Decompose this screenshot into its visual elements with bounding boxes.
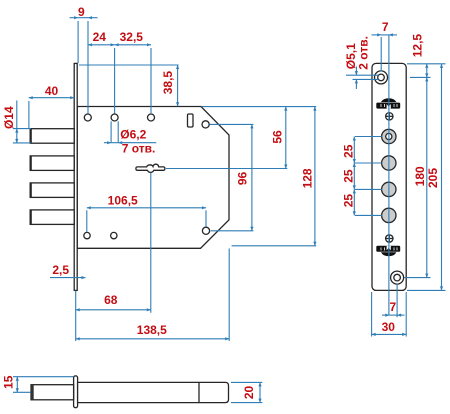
top hole row [84, 114, 154, 121]
dim 138,5 [76, 249, 230, 342]
faceplate front view [372, 63, 406, 290]
svg-text:56: 56 [271, 130, 285, 144]
side view seam [198, 382, 200, 402]
svg-text:24: 24 [93, 30, 107, 44]
dim 15 [2, 375, 74, 392]
svg-text:30: 30 [382, 320, 396, 334]
side view body [78, 382, 229, 402]
dim chain 25 [341, 137, 381, 216]
dim 2,5 [50, 263, 86, 278]
svg-text:20: 20 [242, 386, 256, 400]
bolt hole 1 [382, 156, 396, 170]
dim 128 [202, 107, 316, 246]
svg-text:68: 68 [104, 293, 118, 307]
dim Ø5,1 2 отв. [344, 36, 379, 89]
lock body outline [77, 107, 229, 249]
bolt hole 3 [382, 208, 396, 222]
dim 30 [372, 292, 407, 337]
svg-text:2,5: 2,5 [52, 263, 69, 277]
bottom hole row [84, 232, 117, 238]
dim Ø14 [2, 101, 31, 143]
svg-text:106,5: 106,5 [108, 194, 138, 208]
slot [188, 114, 194, 127]
countersunk hole bottom [391, 271, 404, 284]
countersunk hole top [375, 71, 388, 84]
deadbolt 1 [30, 128, 75, 143]
svg-text:32,5: 32,5 [120, 30, 144, 44]
dim 12,5 [407, 34, 446, 78]
dim 9 [70, 5, 98, 114]
chamfer hole bottom [202, 227, 209, 234]
svg-text:96: 96 [235, 172, 249, 186]
svg-text:25: 25 [341, 169, 355, 183]
dim 106,5 [87, 194, 206, 233]
deadbolt 2 [30, 156, 75, 171]
svg-text:180: 180 [413, 166, 427, 186]
dim 56 [166, 107, 287, 169]
dim 40 [29, 84, 74, 128]
cross hole bottom [386, 235, 393, 242]
dim 32,5 [115, 30, 151, 114]
svg-text:25: 25 [341, 144, 355, 158]
bolt hole 2 [382, 182, 396, 196]
svg-text:12,5: 12,5 [411, 34, 425, 58]
svg-text:138,5: 138,5 [137, 323, 167, 337]
svg-text:15: 15 [2, 375, 16, 389]
dim 38,5 [79, 65, 179, 106]
dim 180 [404, 77, 431, 277]
logo bottom [376, 246, 400, 256]
deadbolt 4 [30, 210, 75, 225]
svg-text:Ø14: Ø14 [2, 106, 16, 129]
dim 24 [88, 30, 115, 114]
svg-text:9: 9 [78, 5, 85, 19]
dim 96 [210, 124, 254, 230]
dim 68 [76, 173, 151, 313]
dim 7 bottom [382, 284, 405, 318]
side view bolt [31, 385, 74, 400]
centerline [388, 35, 390, 315]
dim 20 [231, 382, 262, 402]
side view faceplate [74, 376, 78, 408]
svg-text:38,5: 38,5 [161, 71, 175, 95]
svg-text:40: 40 [45, 84, 59, 98]
svg-text:2 отв.: 2 отв. [357, 36, 371, 70]
cross hole top [386, 113, 393, 120]
chamfer hole top [202, 121, 209, 128]
deadbolt 3 [30, 183, 75, 198]
svg-text:205: 205 [426, 168, 440, 188]
dim Ø6,2 7 отв. [104, 121, 156, 155]
svg-text:7 отв.: 7 отв. [122, 141, 156, 155]
guide ring [382, 129, 396, 143]
svg-text:7: 7 [382, 20, 389, 34]
keyhole [136, 164, 165, 172]
faceplate edge strip [74, 63, 77, 290]
dim 7 top [372, 20, 398, 71]
svg-text:Ø6,2: Ø6,2 [120, 128, 146, 142]
svg-text:25: 25 [341, 194, 355, 208]
svg-text:128: 128 [301, 168, 315, 188]
svg-text:7: 7 [390, 300, 397, 314]
dim 205 [407, 64, 446, 291]
logo top [376, 98, 400, 108]
